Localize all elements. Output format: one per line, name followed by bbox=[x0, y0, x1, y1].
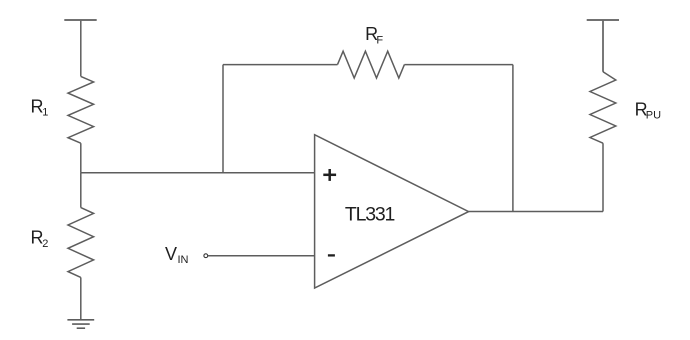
label VIN bbox=[165, 244, 189, 266]
wire: VIN to - input bbox=[208, 255, 315, 257]
label R1 bbox=[31, 97, 49, 119]
wire: output to RPU bbox=[469, 211, 603, 213]
resistor R1 bbox=[68, 76, 94, 143]
terminal VIN (open circle) bbox=[204, 254, 208, 258]
wire: R2 bottom to ground bbox=[80, 277, 82, 319]
wire: RPU top to right rail bbox=[602, 21, 604, 72]
wire: node A to R2 top bbox=[80, 173, 82, 208]
resistor RPU bbox=[590, 72, 616, 143]
power rail V+ (right) bbox=[587, 19, 619, 21]
wire: RF left horizontal bbox=[223, 64, 338, 66]
wire: RF right horizontal bbox=[404, 64, 513, 66]
pin -: inverting input marker bbox=[328, 254, 335, 256]
op-amp U1 (TL331 comparator) bbox=[315, 135, 469, 288]
wire: left rail to R1 top bbox=[80, 21, 82, 77]
ground bbox=[67, 320, 94, 328]
wire: feedback left vertical (RF to node A) bbox=[222, 65, 224, 173]
wire: feedback right vertical (RF to output) bbox=[512, 65, 514, 212]
resistor R2 bbox=[68, 208, 94, 278]
resistor RF bbox=[338, 51, 405, 78]
svg-text:2: 2 bbox=[42, 238, 48, 250]
wire: R1 bottom to node A bbox=[80, 143, 82, 173]
svg-text:TL331: TL331 bbox=[345, 204, 395, 226]
label RF bbox=[365, 24, 383, 46]
svg-text:1: 1 bbox=[42, 107, 48, 119]
label RPU bbox=[635, 99, 662, 121]
svg-text:V: V bbox=[165, 244, 177, 264]
power rail V+ (left) bbox=[64, 19, 96, 21]
svg-text:PU: PU bbox=[646, 110, 661, 122]
svg-text:IN: IN bbox=[178, 254, 189, 266]
label R2 bbox=[31, 228, 49, 251]
pin +: non-inverting input marker bbox=[323, 169, 336, 181]
node A: R1/R2 junction, wire to + input bbox=[81, 172, 315, 174]
svg-text:F: F bbox=[376, 35, 383, 47]
wire: output wire up to RPU bottom bbox=[602, 143, 604, 211]
